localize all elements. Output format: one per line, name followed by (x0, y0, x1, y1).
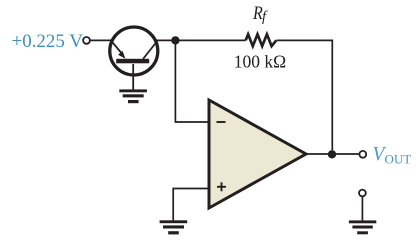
output junction dot (328, 150, 336, 158)
wire: op-amp non-inverting input to ground (173, 189, 209, 221)
ground (op-amp non-inverting input) (160, 220, 188, 234)
input voltage label +0.225 V (12, 32, 84, 52)
resistor Rf reference label (252, 4, 268, 25)
svg-text:+0.225 V: +0.225 V (12, 32, 84, 52)
svg-text:100 kΩ: 100 kΩ (234, 51, 286, 71)
wire: node A to op-amp inverting input (175, 42, 209, 122)
reference terminal (open circle, lower right) (359, 190, 366, 197)
output terminal (open circle) (359, 151, 366, 158)
wire: op-amp output to output terminal (305, 153, 359, 155)
ground (transistor base) (119, 89, 147, 103)
transistor Q1 (110, 27, 158, 90)
wire: resistor to feedback corner and down to output node (277, 40, 333, 150)
output label VOUT (373, 144, 412, 167)
op-amp U1 (209, 100, 306, 208)
svg-text:OUT: OUT (385, 152, 412, 167)
wire: node A to resistor Rf (175, 39, 245, 41)
resistor Rf (246, 34, 277, 46)
wire: transistor collector to node A (155, 39, 176, 41)
svg-text:f: f (262, 9, 268, 25)
ground (output reference) (349, 220, 376, 234)
input terminal (open circle) (83, 37, 90, 44)
wire: input terminal to transistor (90, 39, 113, 41)
wire: reference terminal to ground (361, 197, 363, 221)
resistor Rf value label 100 kΩ (234, 51, 286, 71)
node A junction dot (171, 36, 179, 44)
